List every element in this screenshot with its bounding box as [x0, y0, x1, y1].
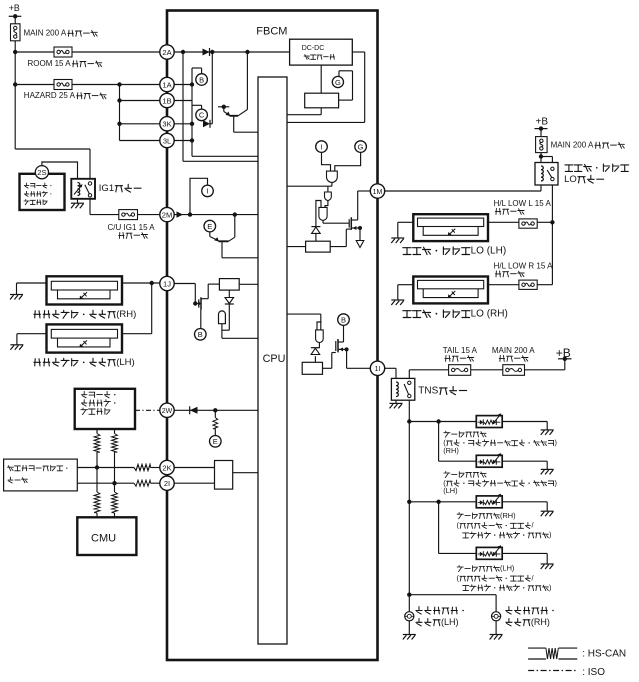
svg-text:2K: 2K [162, 463, 171, 472]
svg-text:B: B [199, 75, 204, 84]
svg-text:CMU: CMU [91, 533, 116, 545]
svg-text:: ISO: : ISO [582, 667, 605, 678]
svg-text:): ) [554, 438, 556, 447]
svg-text:E: E [207, 222, 212, 231]
svg-text:LO: LO [564, 174, 577, 185]
svg-text:2M: 2M [162, 210, 172, 219]
svg-text:2W: 2W [162, 408, 173, 415]
svg-text:+B: +B [536, 117, 549, 128]
svg-text:G: G [358, 142, 364, 151]
svg-text:2S: 2S [37, 168, 46, 177]
svg-text:FBCM: FBCM [256, 26, 287, 38]
svg-text:C: C [199, 111, 205, 120]
svg-text:2A: 2A [162, 48, 171, 57]
svg-text:CPU: CPU [263, 353, 286, 365]
svg-text:H/L LOW R 15 A: H/L LOW R 15 A [494, 262, 553, 271]
svg-text:3L: 3L [163, 136, 171, 145]
svg-text:C/U IG1 15 A: C/U IG1 15 A [108, 223, 156, 232]
svg-text:1A: 1A [162, 80, 171, 89]
svg-text:(RH): (RH) [116, 309, 136, 320]
svg-text:E: E [213, 437, 218, 446]
svg-text:TNS: TNS [418, 386, 438, 397]
svg-text:(RH): (RH) [500, 511, 516, 520]
svg-text:3K: 3K [162, 120, 171, 129]
svg-text:MAIN 200 A: MAIN 200 A [24, 29, 67, 38]
svg-text:I: I [206, 187, 208, 196]
svg-text:1I: 1I [375, 366, 381, 373]
svg-text:): ) [549, 583, 551, 592]
svg-text:G: G [335, 78, 341, 87]
svg-text:HAZARD 25 A: HAZARD 25 A [24, 91, 76, 100]
svg-text:2I: 2I [164, 479, 170, 488]
svg-text:(LH): (LH) [441, 617, 459, 627]
svg-text:1B: 1B [162, 96, 171, 105]
svg-text:MAIN 200 A: MAIN 200 A [551, 141, 594, 150]
svg-text:(RH): (RH) [531, 617, 550, 627]
svg-text:): ) [549, 530, 551, 539]
svg-text:(LH): (LH) [500, 564, 514, 573]
svg-text:: HS-CAN: : HS-CAN [582, 649, 626, 660]
svg-text:1M: 1M [373, 189, 383, 196]
svg-text:LO (RH): LO (RH) [471, 309, 508, 320]
svg-text:ROOM 15 A: ROOM 15 A [28, 59, 72, 68]
svg-text:(RH): (RH) [443, 446, 459, 455]
svg-text:B: B [198, 330, 203, 339]
svg-text:1J: 1J [163, 279, 171, 288]
svg-text:B: B [341, 315, 346, 324]
svg-text:(LH): (LH) [443, 486, 457, 495]
svg-text:I: I [320, 142, 322, 151]
svg-text:): ) [554, 478, 556, 487]
svg-text:+B: +B [9, 3, 20, 13]
svg-text:DC-DC: DC-DC [302, 45, 325, 52]
svg-text:TAIL 15 A: TAIL 15 A [443, 346, 478, 355]
svg-text:H/L LOW L 15 A: H/L LOW L 15 A [494, 199, 552, 208]
svg-text:MAIN 200 A: MAIN 200 A [492, 346, 535, 355]
svg-text:IG1: IG1 [99, 183, 114, 194]
svg-text:LO (LH): LO (LH) [471, 246, 507, 257]
svg-text:(LH): (LH) [116, 357, 134, 368]
